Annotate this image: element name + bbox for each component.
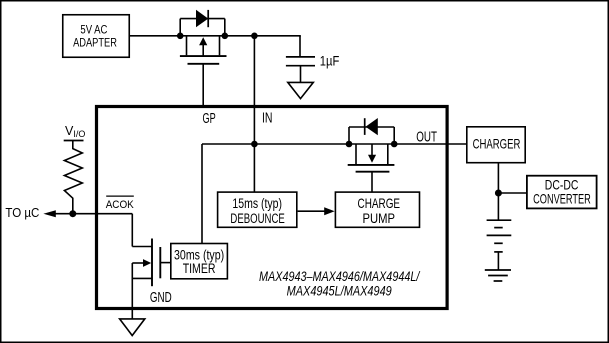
svg-text:MAX4945L/MAX4949: MAX4945L/MAX4949 [287,282,392,298]
svg-text:GP: GP [203,111,216,127]
svg-text:TO µC: TO µC [5,206,39,220]
svg-text:15ms (typ): 15ms (typ) [232,196,282,211]
svg-text:CHARGE: CHARGE [358,195,401,211]
svg-text:IN: IN [262,110,273,126]
svg-text:1µF: 1µF [320,53,340,68]
svg-text:CONVERTER: CONVERTER [533,191,591,207]
svg-text:PUMP: PUMP [363,210,396,226]
svg-text:DEBOUNCE: DEBOUNCE [230,211,284,226]
svg-text:ACOK: ACOK [106,199,135,211]
svg-text:TIMER: TIMER [183,261,216,276]
svg-text:CHARGER: CHARGER [473,136,521,151]
svg-text:GND: GND [150,289,172,306]
svg-text:5V AC: 5V AC [80,23,107,37]
svg-text:ADAPTER: ADAPTER [73,35,117,49]
